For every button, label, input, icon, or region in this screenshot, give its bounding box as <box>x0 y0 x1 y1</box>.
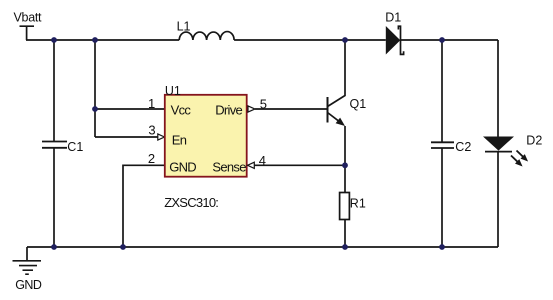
svg-text:U1: U1 <box>165 84 181 98</box>
capacitor C1 <box>42 40 83 247</box>
junction bottom R1 <box>342 244 348 250</box>
inductor L1 <box>179 32 234 40</box>
pin 3 arrowhead <box>158 134 165 140</box>
transistor Q1 <box>328 40 367 165</box>
op-amp U1 IC box <box>165 84 247 177</box>
svg-text:Q1: Q1 <box>350 97 367 111</box>
junction top IC feed <box>92 37 98 43</box>
svg-text:D2: D2 <box>526 134 542 148</box>
junction bottom pin2 <box>120 244 126 250</box>
wire pin4 to Q1 emitter node <box>254 164 345 166</box>
diode D1 (schottky) <box>385 10 403 54</box>
wire right edge bottom <box>497 152 499 247</box>
svg-text:Drive: Drive <box>215 103 242 118</box>
pin 4 arrowhead (Sense) <box>248 162 255 168</box>
svg-text:Vbatt: Vbatt <box>14 10 43 24</box>
svg-text:L1: L1 <box>177 20 191 34</box>
svg-text:C1: C1 <box>67 140 83 154</box>
junction top C1 <box>51 37 57 43</box>
LED D2 arrow 2 <box>509 153 525 169</box>
svg-text:2: 2 <box>148 151 155 166</box>
svg-text:1: 1 <box>148 96 155 111</box>
svg-text:GND: GND <box>169 159 196 174</box>
junction bottom C2 <box>439 244 445 250</box>
wire pin2 <box>123 165 165 247</box>
wire top rail mid <box>234 39 386 41</box>
junction top Q1 collector <box>342 37 348 43</box>
svg-text:GND: GND <box>15 278 42 292</box>
power symbol Vbatt <box>20 26 35 40</box>
junction pin1 tee <box>92 106 98 112</box>
ground <box>13 247 42 274</box>
capacitor C2 <box>431 40 471 247</box>
wire bottom rail <box>27 246 498 248</box>
svg-text:D1: D1 <box>385 10 401 24</box>
junction bottom C1 <box>51 244 57 250</box>
svg-text:Sense: Sense <box>212 159 246 174</box>
wire IC feed vertical <box>94 40 96 137</box>
LED D2 <box>483 134 542 152</box>
junction top C2 <box>439 37 445 43</box>
wire top rail right <box>401 39 499 41</box>
resistor R1 <box>340 165 366 247</box>
svg-text:En: En <box>172 133 187 148</box>
svg-text:3: 3 <box>148 123 155 138</box>
pin 5 arrowhead (Drive out) <box>248 106 255 112</box>
wire pin5 to Q1 base <box>255 108 328 110</box>
svg-text:Vcc: Vcc <box>171 102 192 117</box>
wire pin1 <box>95 108 165 110</box>
LED D2 arrow 1 <box>514 148 530 164</box>
wire pin3 <box>95 136 158 138</box>
svg-text:C2: C2 <box>455 140 471 154</box>
svg-text:R1: R1 <box>350 196 366 210</box>
wire right edge top <box>497 40 499 137</box>
wire top rail left <box>26 39 179 41</box>
junction sense/emitter/R1 <box>342 162 348 168</box>
svg-text:ZXSC310:: ZXSC310: <box>164 195 218 210</box>
